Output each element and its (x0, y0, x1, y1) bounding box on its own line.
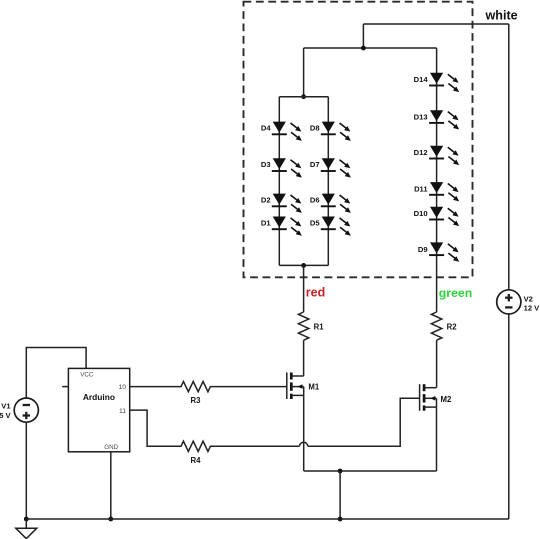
svg-text:GND: GND (104, 444, 118, 451)
svg-text:green: green (439, 286, 473, 300)
wire: unconnected stub pin left (62, 386, 68, 388)
svg-text:D11: D11 (414, 185, 428, 194)
svg-text:V1: V1 (1, 402, 11, 411)
wire: source interconnect (304, 470, 437, 472)
svg-text:10: 10 (118, 384, 126, 391)
transistor M1 (287, 373, 304, 400)
resistor R4 and wire from pin 11 (130, 410, 300, 451)
LED D2 (272, 194, 302, 213)
LED D11 (429, 182, 459, 201)
wire: drop from white net to LED feed (362, 24, 364, 48)
svg-text:5 V: 5 V (0, 411, 12, 420)
LED D5 (321, 217, 351, 236)
transistor M2 (420, 384, 437, 411)
node: junction ground bus center (338, 517, 343, 522)
resistor R2 (431, 312, 441, 340)
LED D10 (429, 207, 459, 226)
node: junction red bracket bottom (301, 263, 306, 268)
svg-text:D6: D6 (310, 195, 320, 204)
wire: red group right column (327, 97, 329, 266)
wire: M2 source down (436, 407, 438, 471)
LED D14 (429, 73, 459, 92)
voltage source V2 12V (497, 290, 521, 314)
wire: white net top horizontal (363, 23, 508, 25)
wire: drop to red group bracket (303, 48, 305, 97)
Arduino U1 box (68, 368, 129, 451)
wire: R4 hop over M1 source (300, 442, 308, 446)
svg-text:D1: D1 (261, 218, 271, 227)
wire: M1 source down (303, 395, 305, 471)
svg-text:M2: M2 (441, 395, 452, 404)
svg-text:D12: D12 (414, 148, 428, 157)
svg-text:12 V: 12 V (524, 304, 540, 313)
LED D9 (429, 242, 459, 261)
ground bus (26, 518, 509, 520)
svg-text:11: 11 (119, 408, 126, 415)
svg-text:R2: R2 (447, 323, 458, 332)
LED D1 (272, 217, 302, 236)
node: junction sources (338, 469, 343, 474)
svg-text:D5: D5 (310, 218, 320, 227)
svg-text:M1: M1 (308, 382, 319, 391)
wire: red group bottom bracket (279, 264, 328, 266)
svg-text:Arduino: Arduino (83, 392, 115, 402)
voltage source V1 5V (14, 398, 38, 422)
wire: sources to ground bus (339, 471, 341, 519)
svg-text:red: red (306, 286, 325, 300)
dashed LED enclosure box (244, 2, 473, 278)
wire: V1 minus to bus (25, 422, 27, 519)
resistor R1 (298, 312, 308, 340)
node: junction red bracket top (301, 94, 306, 99)
svg-text:R1: R1 (314, 323, 325, 332)
wire: right string vertical to D14 (436, 48, 438, 312)
wire: GND pin to bus (110, 452, 112, 519)
wire: white net right vertical to V2 (508, 24, 510, 290)
wire: VCC pin to V1 (26, 348, 86, 399)
svg-text:D8: D8 (310, 123, 320, 132)
svg-text:D14: D14 (414, 75, 429, 84)
wire: R4 to M2 gate (308, 398, 420, 446)
wire: V2 bottom to ground bus (508, 314, 510, 519)
node: junction GND bus (108, 517, 113, 522)
LED D6 (321, 194, 351, 213)
LED D3 (272, 158, 302, 177)
node: junction white feed (361, 46, 366, 51)
wire: LED feed horizontal (304, 47, 437, 49)
svg-text:V2: V2 (524, 294, 533, 303)
wire: red group left column (278, 97, 280, 266)
svg-text:R3: R3 (191, 396, 202, 405)
svg-text:D9: D9 (418, 245, 428, 254)
svg-text:white: white (485, 8, 518, 22)
LED D12 (429, 146, 459, 165)
wire: red group top bracket (279, 96, 328, 98)
svg-text:VCC: VCC (80, 371, 94, 378)
LED D8 (321, 122, 351, 141)
svg-text:D10: D10 (414, 209, 428, 218)
ground symbol (25, 519, 27, 528)
wire: R1 to M1 drain (303, 340, 305, 376)
LED D13 (429, 110, 459, 129)
svg-text:R4: R4 (191, 456, 202, 465)
wire: R2 to M2 drain (436, 340, 438, 388)
svg-text:D7: D7 (310, 160, 320, 169)
wire: red net down to R1 (303, 265, 305, 312)
node: junction V1 bus (24, 517, 29, 522)
LED D4 (272, 122, 302, 141)
resistor R3 (130, 381, 287, 391)
svg-text:D13: D13 (414, 113, 428, 122)
svg-text:D3: D3 (261, 160, 271, 169)
LED D7 (321, 158, 351, 177)
svg-text:D4: D4 (261, 123, 271, 132)
svg-text:D2: D2 (261, 195, 271, 204)
